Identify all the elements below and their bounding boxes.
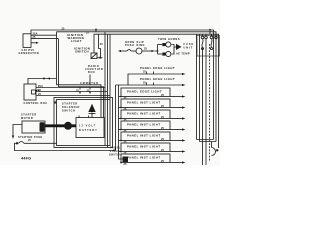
- wire fuse verticals: [196, 34, 198, 139]
- svg-text:25: 25: [143, 82, 147, 85]
- lamp box F panel inst light: [121, 121, 170, 130]
- svg-text:BOX: BOX: [88, 71, 96, 74]
- svg-text:25: 25: [124, 130, 128, 133]
- svg-text:25: 25: [76, 90, 80, 93]
- node junction dot: [43, 78, 45, 80]
- horn H1: [162, 43, 165, 46]
- wire ignition drop: [99, 34, 101, 58]
- svg-text:25: 25: [124, 163, 128, 165]
- svg-text:GENERATOR: GENERATOR: [19, 52, 40, 55]
- wire heavy cable: [45, 124, 76, 127]
- wire generator F lead: [31, 38, 59, 40]
- svg-text:44FG: 44FG: [21, 157, 31, 161]
- svg-text:25: 25: [86, 32, 90, 35]
- wire feed L1: [28, 79, 57, 85]
- wire ammeter terminal right: [89, 87, 91, 90]
- svg-text:PANEL INST LIGHT: PANEL INST LIGHT: [127, 145, 161, 149]
- switch S1 ignition: [91, 53, 97, 59]
- wire ignition switch output: [97, 57, 100, 59]
- svg-text:UNIT: UNIT: [184, 46, 194, 49]
- svg-text:CONTROL BOX: CONTROL BOX: [24, 102, 48, 105]
- wire bus line 3: [94, 34, 219, 148]
- battery enclosure inner: [57, 100, 111, 146]
- wire push return loop: [15, 143, 116, 150]
- svg-text:PUSH: PUSH: [125, 44, 134, 47]
- svg-text:AE TEMP: AE TEMP: [176, 53, 190, 56]
- wire horn circuit arrow: [118, 50, 121, 52]
- svg-text:SWITCH: SWITCH: [62, 109, 75, 112]
- wire generator earth arrow: [31, 42, 36, 44]
- node connector dot: [216, 149, 218, 151]
- svg-text:25: 25: [161, 127, 165, 130]
- wire arrow on feed: [47, 77, 50, 79]
- wire row A: [128, 74, 182, 85]
- node tick fuse feed: [209, 29, 211, 34]
- svg-text:PANEL INST LIGHT: PANEL INST LIGHT: [127, 156, 161, 160]
- wire ammeter line pair: [57, 85, 102, 118]
- svg-text:25: 25: [161, 105, 165, 108]
- svg-text:25: 25: [124, 152, 128, 155]
- fuse terminal ticks: [202, 34, 204, 36]
- wire starter push lead: [24, 142, 57, 144]
- svg-text:25: 25: [38, 93, 42, 96]
- wire right bottom horizontals: [197, 139, 214, 141]
- control box CB: [24, 84, 36, 100]
- svg-text:25: 25: [124, 108, 128, 111]
- battery B1: [76, 118, 104, 138]
- wire control box lead 2: [36, 90, 39, 92]
- starter motor M2: [22, 121, 45, 133]
- wire starter motor earth: [13, 125, 22, 136]
- svg-text:25: 25: [124, 141, 128, 144]
- wire top bus line 2: [57, 32, 217, 142]
- svg-text:LIGHT: LIGHT: [71, 39, 82, 43]
- solenoid contact disc: [64, 122, 72, 130]
- earth symbol: [88, 104, 95, 112]
- svg-text:25: 25: [143, 71, 147, 74]
- arrow up on enclosure: [54, 100, 56, 103]
- wire control box lead 1: [36, 87, 105, 89]
- wire row B: [116, 84, 183, 86]
- switch S2 panel light: [123, 157, 129, 163]
- svg-text:PANEL INST LIGHT: PANEL INST LIGHT: [127, 123, 161, 127]
- lamp box G panel inst light: [121, 132, 170, 141]
- wire radio junction drop: [89, 75, 91, 85]
- svg-text:BATTERY: BATTERY: [79, 129, 98, 132]
- svg-text:25: 25: [144, 47, 148, 50]
- svg-text:25: 25: [161, 138, 165, 141]
- wire control box lead 3: [36, 95, 110, 97]
- svg-text:PANEL EDGE LIGHT: PANEL EDGE LIGHT: [140, 77, 175, 81]
- svg-text:25: 25: [161, 116, 165, 119]
- battery terminal ticks: [78, 116, 80, 118]
- lamp box C panel edge light: [121, 88, 170, 97]
- svg-text:MOTOR: MOTOR: [21, 117, 33, 120]
- lamp box E panel inst light: [121, 110, 170, 119]
- wire top bus line 1: [31, 30, 214, 140]
- wire right vertical short: [211, 142, 213, 148]
- arrow to fuse unit: [176, 44, 182, 50]
- svg-text:25: 25: [33, 36, 37, 39]
- svg-text:25: 25: [124, 119, 128, 122]
- wire dashed loom: [209, 44, 211, 161]
- lamp box I panel inst light: [121, 154, 170, 163]
- svg-text:PANEL INST LIGHT: PANEL INST LIGHT: [127, 134, 161, 138]
- svg-text:SWITCH: SWITCH: [109, 154, 122, 157]
- svg-text:25: 25: [161, 149, 165, 152]
- horn H2: [162, 53, 165, 56]
- battery earth lead: [91, 113, 93, 118]
- wire main vertical bus 1: [104, 32, 106, 146]
- fuse element 1: [202, 39, 203, 47]
- lamp box H panel inst light: [121, 143, 170, 152]
- svg-text:SWITCH: SWITCH: [75, 50, 89, 54]
- fuse element 2: [211, 39, 212, 47]
- svg-text:25: 25: [100, 43, 104, 46]
- svg-text:25A: 25A: [38, 85, 43, 88]
- horn push contact: [127, 49, 131, 51]
- battery enclosure outer: [54, 98, 113, 148]
- starter push button: [16, 142, 18, 144]
- wire ammeter terminal left: [79, 87, 81, 90]
- svg-text:25: 25: [124, 97, 128, 100]
- wire panel lights left bus: [115, 85, 117, 150]
- svg-text:25: 25: [161, 94, 165, 97]
- svg-text:25: 25: [161, 160, 165, 163]
- svg-text:PANEL INST LIGHT: PANEL INST LIGHT: [127, 101, 161, 105]
- lamp box D panel inst light: [121, 99, 170, 108]
- svg-text:25: 25: [38, 89, 42, 92]
- wire left vertical pair: [56, 32, 58, 85]
- svg-text:PANEL EDGE LIGHT: PANEL EDGE LIGHT: [127, 90, 162, 94]
- fuse unit FU1 box: [197, 36, 220, 57]
- svg-text:PANEL INST LIGHT: PANEL INST LIGHT: [127, 112, 161, 116]
- svg-text:25: 25: [62, 27, 66, 30]
- svg-text:12 VOLT: 12 VOLT: [79, 124, 96, 127]
- node tick ignition feed: [95, 29, 97, 32]
- svg-text:25A: 25A: [33, 32, 38, 35]
- fuse terminals: [201, 36, 204, 39]
- svg-text:PANEL EDGE LIGHT: PANEL EDGE LIGHT: [140, 66, 175, 70]
- wire main vertical bus 3: [109, 34, 111, 99]
- wire generator D lead: [31, 34, 57, 36]
- wire horn branch: [157, 45, 159, 55]
- svg-text:TWIN HORNS: TWIN HORNS: [158, 38, 180, 41]
- wire push contact hump: [19, 142, 24, 144]
- slip ring SR: [136, 48, 142, 54]
- svg-text:25: 25: [28, 139, 32, 142]
- wire horn outputs: [172, 45, 175, 55]
- wire main vertical bus 2: [107, 34, 109, 147]
- generator G1: [23, 34, 31, 48]
